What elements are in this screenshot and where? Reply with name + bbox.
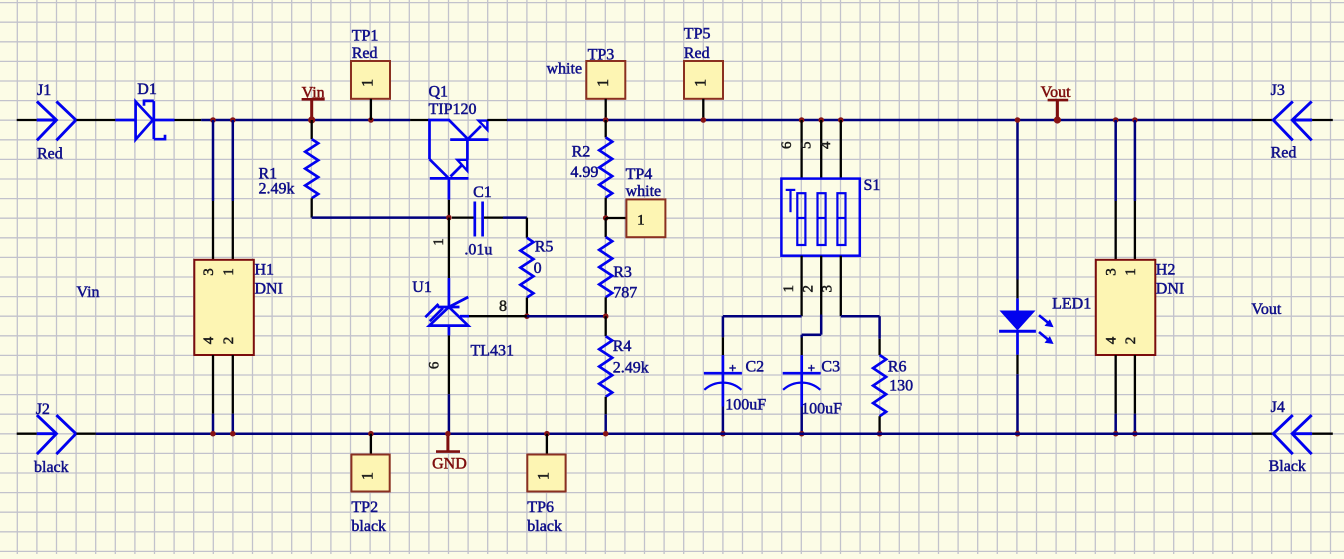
capacitor C1 [452, 216, 475, 218]
svg-text:1: 1 [1123, 268, 1139, 276]
wire top rail Vin section [201, 119, 410, 122]
svg-text:R2: R2 [572, 144, 591, 161]
wire S1 pin 5 [820, 120, 822, 179]
wire C1 to R5 [503, 216, 527, 219]
header H2 DNI [1096, 260, 1156, 355]
svg-text:S1: S1 [864, 177, 881, 194]
svg-text:100uF: 100uF [725, 397, 766, 414]
wire LED to ground rail [1016, 355, 1018, 375]
resistor R6 [878, 339, 880, 355]
junction TP3 [603, 117, 609, 123]
svg-text:white: white [626, 183, 662, 200]
power port GND [446, 434, 449, 452]
wire H1 pin1 vertical [232, 120, 235, 201]
svg-text:2: 2 [800, 285, 816, 293]
junction R5 ref node [524, 313, 530, 319]
wire LED to top rail [1016, 120, 1019, 280]
wire H2 pin3 vertical [1114, 120, 1117, 201]
junction TP6 [544, 431, 550, 437]
svg-text:2.49k: 2.49k [259, 181, 295, 198]
wire bottom-left pin of J2 [17, 433, 37, 435]
svg-text:4: 4 [201, 336, 217, 344]
wire S1 pin2 to C3 [802, 333, 822, 336]
svg-text:Vout: Vout [1251, 301, 1281, 318]
svg-text:3: 3 [1104, 268, 1120, 276]
junction LED bottom [1015, 431, 1021, 437]
connector J4 [1273, 415, 1293, 454]
regulator U1 TL431 [425, 278, 469, 335]
junction C3 [799, 431, 805, 437]
svg-text:J2: J2 [36, 401, 50, 418]
svg-text:3: 3 [201, 268, 217, 276]
wire H1 pin3 vertical [212, 120, 215, 201]
wire H2 pin1 vertical [1134, 120, 1137, 201]
svg-text:TIP120: TIP120 [429, 101, 477, 118]
svg-text:DNI: DNI [1156, 281, 1184, 298]
wire top rail Vout section [507, 119, 1252, 122]
svg-text:1: 1 [535, 472, 552, 480]
wire Q1 base pin [448, 200, 450, 218]
junction R3-R4 [603, 313, 609, 319]
svg-text:4: 4 [818, 141, 834, 149]
svg-text:Black: Black [1269, 458, 1306, 475]
wire U1 cathode [448, 218, 450, 278]
resistor R2 [605, 120, 607, 137]
wire J2 to ground rail [77, 433, 96, 435]
svg-text:Red: Red [37, 146, 63, 163]
junction GND [445, 431, 451, 437]
svg-text:0: 0 [534, 260, 542, 277]
svg-text:2: 2 [1123, 337, 1139, 345]
wire H1 pin4 vertical [212, 355, 214, 414]
svg-text:130: 130 [889, 378, 913, 395]
svg-text:R5: R5 [535, 239, 554, 256]
junction H2 pin4 bottom [1113, 431, 1119, 437]
wire Q1 collector pin [410, 119, 429, 121]
svg-text:black: black [351, 518, 386, 535]
wire H2 pin2 vertical [1134, 355, 1136, 414]
svg-text:4: 4 [1104, 336, 1120, 344]
junction R6 [877, 431, 883, 437]
wire to J4 [1252, 433, 1274, 435]
svg-text:Q1: Q1 [429, 84, 449, 101]
switch S1 [781, 179, 859, 256]
junction H1 pin2 bottom [230, 431, 236, 437]
wire ref node to divider [527, 315, 606, 318]
svg-text:100uF: 100uF [801, 401, 842, 418]
svg-text:C1: C1 [473, 184, 492, 201]
svg-text:TP2: TP2 [351, 499, 378, 516]
wire H1 pin2 vertical [232, 355, 234, 414]
svg-text:R3: R3 [613, 264, 632, 281]
LED LED1 [999, 298, 1054, 354]
svg-text:6: 6 [427, 361, 443, 369]
wire S1 pin 1 [800, 256, 802, 317]
test point TP3 [586, 61, 625, 99]
svg-text:1: 1 [781, 285, 797, 293]
svg-text:1: 1 [637, 212, 645, 228]
header H1 DNI [194, 260, 254, 355]
test point TP1 [351, 61, 390, 99]
svg-text:GND: GND [432, 456, 467, 473]
wire J3 pin [1312, 119, 1333, 121]
test point TP4 [606, 217, 627, 219]
wire ground rail [96, 432, 1252, 435]
junction C2 [720, 431, 726, 437]
diode D1 [115, 119, 135, 122]
wire U1 anode to ground [448, 335, 450, 394]
junction TP2 [368, 431, 374, 437]
junction H1 pin1 top [230, 117, 236, 123]
wire R1 to base node [312, 216, 449, 219]
svg-text:J1: J1 [37, 82, 51, 99]
wire H2 pin4 vertical [1115, 355, 1117, 414]
svg-text:2: 2 [221, 337, 237, 345]
junction H1 pin3 top [210, 117, 216, 123]
resistor R4 [605, 316, 607, 336]
svg-text:4.99: 4.99 [570, 164, 598, 181]
wire to J3 [1252, 119, 1274, 121]
junction H2 pin3 top [1113, 117, 1119, 123]
svg-text:1: 1 [360, 472, 377, 480]
transistor Q1 TIP120 [430, 120, 489, 200]
wire J4 pin [1312, 433, 1333, 435]
wire S1 pin 3 [840, 256, 842, 317]
svg-text:8: 8 [499, 298, 507, 315]
svg-text:1: 1 [595, 79, 612, 87]
wire S1 pin 6 [800, 120, 802, 179]
connector J2 [37, 432, 57, 435]
svg-text:white: white [547, 61, 583, 78]
connector J1 [37, 119, 57, 122]
svg-text:1: 1 [431, 238, 447, 246]
junction TP5 [701, 117, 707, 123]
svg-text:5: 5 [798, 141, 814, 149]
connector J3 [1273, 101, 1293, 140]
junction base node [446, 215, 452, 221]
capacitor C2 [722, 337, 724, 355]
svg-text:H1: H1 [255, 262, 275, 279]
junction H2 pin2 bottom [1132, 431, 1138, 437]
wire U1 ref pin 8 [469, 315, 527, 317]
svg-text:Vout: Vout [1041, 84, 1071, 101]
svg-text:2.49k: 2.49k [613, 360, 649, 377]
wire Q1 emitter pin [487, 119, 507, 121]
junction H2 pin1 top [1132, 117, 1138, 123]
junction S1 pin6 [799, 117, 805, 123]
svg-text:C3: C3 [821, 359, 840, 376]
junction H1 pin4 bottom [210, 431, 216, 437]
svg-text:TP5: TP5 [684, 26, 711, 43]
test point TP2 [370, 434, 372, 455]
wire top-left pin of J1 [17, 119, 37, 121]
svg-text:LED1: LED1 [1052, 296, 1091, 313]
junction R4 bottom [603, 431, 609, 437]
junction LED top [1015, 117, 1021, 123]
svg-text:Red: Red [352, 45, 378, 62]
svg-text:R4: R4 [613, 338, 632, 355]
svg-text:U1: U1 [412, 279, 432, 296]
resistor R3 [605, 218, 607, 237]
svg-text:R6: R6 [888, 359, 907, 376]
svg-text:TP4: TP4 [626, 166, 653, 183]
resistor R5 [526, 218, 528, 238]
wire D1 to node [175, 119, 202, 121]
wire S1 pin1 to C2 [723, 315, 802, 318]
svg-text:1: 1 [693, 79, 710, 87]
resistor R1 [311, 120, 313, 139]
wire S1 pin3 to R6 [841, 315, 880, 318]
junction TP1 [368, 117, 374, 123]
svg-text:787: 787 [613, 285, 637, 302]
wire C2 to ground rail [722, 407, 725, 434]
svg-text:TL431: TL431 [471, 343, 515, 360]
svg-text:Vin: Vin [77, 284, 100, 301]
wire J1 to D1 [77, 119, 116, 121]
svg-text:H2: H2 [1156, 262, 1176, 279]
wire C3 to ground rail [800, 407, 803, 434]
svg-text:D1: D1 [137, 81, 157, 98]
svg-text:black: black [527, 518, 562, 535]
svg-text:1: 1 [221, 268, 237, 276]
svg-text:.01u: .01u [464, 242, 492, 259]
capacitor C3 [801, 338, 803, 356]
wire S1 pin 4 [840, 120, 842, 179]
svg-text:TP6: TP6 [527, 499, 554, 516]
test point TP6 [546, 434, 548, 455]
wire S1 pin 2 [820, 256, 822, 315]
svg-text:Red: Red [1271, 145, 1297, 162]
junction S1 pin4 [838, 117, 844, 123]
svg-text:6: 6 [779, 141, 795, 149]
svg-text:TP1: TP1 [352, 28, 379, 45]
svg-text:DNI: DNI [255, 281, 283, 298]
svg-text:J3: J3 [1271, 82, 1285, 99]
svg-text:black: black [34, 459, 69, 476]
svg-text:C2: C2 [746, 359, 765, 376]
test point TP5 [684, 61, 723, 99]
svg-text:TP3: TP3 [588, 47, 615, 64]
junction S1 pin5 [818, 117, 824, 123]
svg-text:Red: Red [684, 45, 710, 62]
svg-text:1: 1 [360, 79, 377, 87]
junction R2-R3 [603, 215, 609, 221]
svg-text:J4: J4 [1271, 399, 1285, 416]
